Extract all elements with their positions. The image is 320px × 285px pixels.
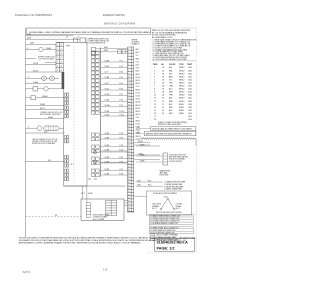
svg-text:16: 16 [128,95,130,97]
svg-text:15: 15 [154,110,156,112]
wire row 105 [26,105,65,107]
svg-text:18: 18 [162,67,164,69]
svg-text:20: 20 [128,108,130,110]
svg-text:P1-7: P1-7 [120,94,124,96]
component box outline [56,42,87,186]
svg-text:VT-5: VT-5 [136,61,140,63]
svg-text:11: 11 [128,80,130,82]
svg-text:ITEM: ITEM [153,64,158,66]
svg-text:SRML: SRML [179,107,184,109]
box1 left cells group 5 [65,169,69,181]
svg-text:41.1: 41.1 [71,164,74,166]
svg-text:6: 6 [154,82,155,84]
svg-text:13: 13 [154,104,156,106]
svg-text:18: 18 [162,73,164,75]
ladder right stub wires [134,143,160,160]
svg-text:53: 53 [128,210,130,212]
svg-text:P1-10: P1-10 [120,111,124,113]
note box 2 [144,131,196,135]
wire row 55 [26,58,37,60]
svg-text:DOUBLE WALL OVEN // WIRING DIA: DOUBLE WALL OVEN // WIRING DIAGRAM DE PA… [29,31,152,34]
svg-text:23: 23 [128,117,130,119]
svg-text:1: 1 [154,67,155,69]
svg-text:WIRING DIAGRAM: WIRING DIAGRAM [104,22,135,26]
door latch detail box [146,191,191,215]
svg-text:200C: 200C [188,67,193,69]
svg-text:14: 14 [162,101,164,103]
svg-text:18: 18 [162,76,164,78]
svg-text:14: 14 [154,107,156,109]
svg-text:Publication No 5995535324: Publication No 5995535324 [15,13,52,17]
terminal block N [80,38,86,42]
svg-text:BU-18: BU-18 [136,102,141,104]
svg-text:6: 6 [28,127,29,129]
svg-text:SEW-2: SEW-2 [179,76,185,78]
frame left border [25,28,27,238]
svg-text:SPST: SPST [66,46,70,48]
svg-text:41: 41 [128,173,130,175]
svg-text:51: 51 [128,204,130,206]
interconnect wires upper group [101,62,128,107]
svg-text:OR-7: OR-7 [136,68,140,70]
svg-text:18: 18 [162,70,164,72]
svg-text:MOTOR ASSY SWITCHES: MOTOR ASSY SWITCHES [40,113,61,116]
svg-text:15: 15 [128,92,130,94]
svg-text:3: 3 [154,73,155,75]
svg-text:37: 37 [128,160,130,162]
svg-text:18: 18 [162,95,164,97]
svg-text:BR-4: BR-4 [136,58,140,60]
svg-text:WH-9: WH-9 [136,74,140,76]
svg-text:41.1: 41.1 [48,160,51,162]
EOC relay grid [106,200,117,215]
svg-text:P1-8: P1-8 [120,137,124,139]
dashed wire 44 bottom [26,216,82,218]
svg-text:DOOR POSITION: DOOR POSITION [169,161,183,163]
wire color table header [153,63,193,66]
main board connector ladder [128,47,134,212]
svg-text:BR-14: BR-14 [136,89,141,91]
svg-text:(N.C.): (N.C.) [152,208,157,210]
table top rule [152,60,196,62]
svg-text:SEW-2: SEW-2 [179,79,185,81]
receptacle table 2 [149,226,193,234]
P2 cell pin numbers [57,44,61,72]
svg-text:COM: COM [164,197,168,199]
svg-text:10: 10 [162,113,164,115]
svg-text:SRML: SRML [179,104,184,106]
svg-text:GY-6: GY-6 [136,65,140,67]
svg-text:5: 5 [28,77,29,79]
svg-text:18: 18 [162,79,164,81]
svg-text:SEW-2: SEW-2 [179,92,185,94]
svg-text:Y-3: Y-3 [136,55,138,57]
note box stubs [136,129,151,134]
svg-text:RD-22: RD-22 [136,114,141,116]
svg-text:P1-6: P1-6 [120,88,124,90]
svg-text:17: 17 [128,98,130,100]
connector pin pairs column upper [92,51,100,114]
svg-text:12: 12 [154,101,156,103]
svg-text:200C: 200C [188,89,193,91]
door lock motor circle and oval [37,126,42,131]
svg-text:28: 28 [128,132,130,134]
svg-text:UNLOCKED: UNLOCKED [152,204,162,206]
svg-text:12: 12 [162,107,164,109]
connector pin pairs column lower [92,133,100,177]
svg-text:P1-2: P1-2 [120,66,124,68]
svg-text:OR-27: OR-27 [136,130,141,132]
svg-text:VT-25: VT-25 [136,123,140,125]
svg-text:58-WH: 58-WH [42,96,48,98]
svg-text:E30EW7CEPS4: E30EW7CEPS4 [103,13,125,17]
supply wire N [26,38,81,40]
svg-text:105C: 105C [188,116,193,118]
electronic oven control box [81,199,124,220]
svg-text:18: 18 [162,89,164,91]
svg-text:P6 OVEN SENSOR CONNECTOR: P6 OVEN SENSOR CONNECTOR [151,230,177,232]
svg-text:45: 45 [128,185,130,187]
svg-text:9: 9 [154,92,155,94]
svg-text:1.6: 1.6 [137,132,139,134]
svg-text:200C: 200C [188,101,193,103]
V switch diagram [160,198,175,210]
svg-text:P2 UPPER OVEN LIGHT CONNECTOR: P2 UPPER OVEN LIGHT CONNECTOR [151,218,180,220]
svg-text:P5-2: P5-2 [148,185,152,187]
svg-text:150C: 150C [188,107,193,109]
svg-text:BR-24: BR-24 [136,120,141,122]
svg-text:8: 8 [154,89,155,91]
svg-text:10: 10 [154,95,156,97]
wire row 133 [26,132,65,134]
svg-text:200C: 200C [188,82,193,84]
terminal block L1 [74,38,78,42]
wire row 44 [26,43,57,45]
box1 left cells group 2 [65,106,69,118]
light switch box and circle row [33,87,38,91]
svg-text:S/671: S/671 [23,270,31,274]
wire row 109 [26,109,65,111]
svg-text:1-8: 1-8 [103,268,108,272]
box1 inner dashed divider [73,46,75,182]
svg-text:14: 14 [162,98,164,100]
svg-text:54-BK: 54-BK [46,48,52,50]
svg-text:P1-8: P1-8 [120,173,124,175]
small component box row 97 [31,96,36,100]
svg-text:PAGE: 1/2: PAGE: 1/2 [157,247,175,251]
svg-text:2. LOWER OVEN LIGHTS 120V: 2. LOWER OVEN LIGHTS 120V [86,40,110,42]
svg-text:50: 50 [128,201,130,203]
frame right border dotted [196,28,198,253]
svg-text:105C: 105C [188,119,193,121]
svg-text:22: 22 [128,114,130,116]
svg-text:4: 4 [27,48,28,50]
EOC left pin ladder [86,203,90,218]
svg-text:1. UPPER OVEN LIGHTS 120V: 1. UPPER OVEN LIGHTS 120V [86,38,110,40]
wire row 118 [26,118,65,120]
svg-text:P1-8: P1-8 [120,145,124,147]
svg-text:P1-1: P1-1 [120,60,124,62]
svg-text:BU-8: BU-8 [136,71,140,73]
svg-text:GY-16: GY-16 [136,96,141,98]
svg-text:57-BU: 57-BU [33,82,39,84]
svg-text:Y-13: Y-13 [136,86,139,88]
svg-text:32: 32 [128,145,130,147]
svg-text:56-GY: 56-GY [33,70,39,72]
EOC to ladder wires [124,201,128,206]
svg-text:P1-9: P1-9 [120,105,124,107]
svg-text:42-BK: 42-BK [48,117,54,119]
door latch motor component [163,153,168,165]
svg-text:25: 25 [128,123,130,125]
svg-text:52: 52 [128,207,130,209]
svg-text:VT-15: VT-15 [136,92,140,94]
svg-text:31: 31 [128,142,130,144]
svg-text:200C: 200C [188,79,193,81]
svg-text:BK-21: BK-21 [136,111,141,113]
svg-text:48: 48 [128,194,130,196]
svg-text:14: 14 [128,89,130,91]
svg-text:43: 43 [128,179,130,181]
svg-text:18-WH: 18-WH [105,105,111,107]
svg-text:P1-3: P1-3 [120,72,124,74]
svg-text:49: 49 [128,197,130,199]
interconnect wires lower group [101,135,128,176]
svg-text:200C: 200C [188,70,193,72]
revision box [155,239,195,252]
svg-text:P1-8: P1-8 [120,149,124,151]
svg-text:4: 4 [154,76,155,78]
svg-text:17: 17 [154,116,156,118]
probe list [164,181,185,191]
frame top border [26,27,197,29]
svg-text:SEW-2: SEW-2 [179,82,185,84]
ladder pin label column [136,49,141,141]
svg-text:P1-8: P1-8 [120,157,124,159]
svg-text:39: 39 [128,166,130,168]
svg-text:29: 29 [128,135,130,137]
note box 1 [151,127,196,131]
svg-text:42: 42 [128,176,130,178]
svg-text:33: 33 [128,148,130,150]
svg-text:BK-1: BK-1 [136,49,140,51]
svg-text:PK-20: PK-20 [136,108,141,110]
svg-text:SEW-2: SEW-2 [179,70,185,72]
svg-text:SEW-2: SEW-2 [179,95,185,97]
wires to list [136,182,164,186]
svg-text:LOCK MOTOR ASSY: LOCK MOTOR ASSY [38,58,55,61]
svg-text:Y-23: Y-23 [136,117,139,119]
svg-text:AVERTISSEMENT: COUPER L ALIMEN: AVERTISSEMENT: COUPER L ALIMENTATION AVA… [19,242,141,245]
oven lamps crossed circles [42,76,47,81]
svg-text:SEW-2: SEW-2 [179,67,185,69]
ladder cell pin numbers [128,49,130,212]
box1 bottom edge extension [64,185,126,187]
wire color table rows [154,67,193,121]
svg-text:1.5: 1.5 [137,127,139,129]
svg-text:14-VT: 14-VT [105,83,109,85]
interconnect wire labels lower [105,133,124,176]
svg-text:WH-29: WH-29 [136,136,141,138]
svg-text:YEL: YEL [169,73,172,75]
legend separator [150,28,152,120]
dark connector bar [62,72,65,89]
svg-text:40: 40 [128,170,130,172]
svg-text:SWITCH SHOWN DOOR CLOSED: SWITCH SHOWN DOOR CLOSED [156,212,182,214]
wire row 57 [26,71,57,73]
svg-text:11: 11 [154,98,156,100]
svg-text:SEW-2: SEW-2 [179,86,185,88]
lamp circles mid right [93,150,97,154]
frame bottom right dotted [148,252,197,254]
svg-text:44: 44 [55,215,57,217]
svg-text:DRIVEN CONTINUOUSLY IN ONE: DRIVEN CONTINUOUSLY IN ONE [32,141,57,143]
svg-text:SRML: SRML [179,110,184,112]
svg-text:41.4: 41.4 [88,179,91,181]
connector bus line [100,48,102,178]
svg-text:34: 34 [128,151,130,153]
svg-text:(EOC) LOWER: (EOC) LOWER [93,219,105,221]
wire 146 [136,145,160,147]
svg-text:UPPER: UPPER [132,40,138,42]
EOC feed wires [82,186,87,203]
svg-text:27: 27 [128,129,130,131]
box1 left cells group 4 [65,156,69,168]
svg-text:PK-30: PK-30 [136,139,141,141]
L1 feed cell boxes [91,48,95,52]
interconnect wire labels upper [105,60,124,107]
svg-text:200C: 200C [188,98,193,100]
svg-text:TEMP: TEMP [187,64,193,66]
svg-text:RD-12: RD-12 [136,83,141,85]
svg-text:16-OR: 16-OR [105,94,111,96]
svg-text:200C: 200C [188,76,193,78]
box1 left cells group 3 [65,136,69,143]
svg-text:42.2: 42.2 [94,179,97,181]
svg-text:BK-11: BK-11 [136,80,140,82]
svg-text:2: 2 [154,70,155,72]
svg-text:59-BR: 59-BR [40,104,46,106]
wire to latch detail box [134,195,146,197]
legend numbered list [153,38,198,61]
svg-text:P1-4: P1-4 [120,77,124,79]
svg-text:3. PROBE RETURN WIRE: 3. PROBE RETURN WIRE [164,186,183,188]
svg-text:18: 18 [162,86,164,88]
banner title box [27,28,151,35]
svg-text:SEW-2: SEW-2 [179,101,185,103]
heater element symbol [140,137,196,146]
svg-text:COLOR: COLOR [169,64,176,66]
svg-text:200C: 200C [188,73,193,75]
extra wires band 112-116 [101,112,128,116]
receptacle table 1 [149,215,193,225]
svg-text:SEW-2: SEW-2 [179,98,185,100]
svg-text:SRML: SRML [179,113,184,115]
svg-text:47: 47 [128,191,130,193]
symbol rows above rev box [151,233,179,241]
svg-text:13: 13 [128,86,130,88]
svg-text:PK-10: PK-10 [136,77,141,79]
svg-text:18: 18 [162,92,164,94]
svg-text:7: 7 [154,86,155,88]
svg-text:200C: 200C [188,95,193,97]
upper feed wires to ladder [96,49,128,52]
svg-text:24: 24 [128,120,130,122]
svg-text:30: 30 [128,139,130,141]
door switch circle row [39,47,43,51]
svg-text:12: 12 [128,83,130,85]
ladder top feed cells [118,50,122,54]
svg-text:36: 36 [128,157,130,159]
svg-text:150C: 150C [188,113,193,115]
svg-text:P1-8: P1-8 [120,100,124,102]
svg-text:THE MOTORIZED DOOR LOCK IS: THE MOTORIZED DOOR LOCK IS [32,139,57,141]
svg-text:200C: 200C [188,92,193,94]
svg-text:RD-2: RD-2 [136,52,140,54]
svg-text:P1-8: P1-8 [120,161,124,163]
svg-text:SEW-2: SEW-2 [179,89,185,91]
svg-text:18: 18 [162,82,164,84]
svg-text:P1-8: P1-8 [120,133,124,135]
svg-text:44: 44 [128,182,130,184]
box1 left cells group 1 [65,93,69,105]
connector P2 ladder [56,43,63,73]
svg-text:200C: 200C [188,86,193,88]
svg-text:OR-17: OR-17 [136,99,141,101]
svg-text:P3 LOWER OVEN LIGHT CONNECTOR: P3 LOWER OVEN LIGHT CONNECTOR [151,221,181,223]
svg-text:L1: L1 [66,36,68,38]
svg-text:21: 21 [128,111,130,113]
svg-text:35: 35 [128,154,130,156]
svg-text:LOCKED: LOCKED [176,204,183,206]
svg-text:46: 46 [128,188,130,190]
svg-text:16: 16 [154,113,156,115]
supply wire L1 [26,35,74,37]
svg-text:P5-1: P5-1 [148,180,152,182]
svg-text:10: 10 [162,110,164,112]
wire row 56 [26,64,57,66]
svg-text:10: 10 [128,77,130,79]
svg-text:5: 5 [154,79,155,81]
svg-text:18: 18 [154,119,156,121]
svg-text:18: 18 [128,101,130,103]
svg-text:26: 26 [128,126,130,128]
svg-text:150C: 150C [188,104,193,106]
svg-text:150C: 150C [188,110,193,112]
wire row 161 [26,161,65,163]
wire row 83 [26,82,62,84]
svg-text:CONTROL: CONTROL [132,42,140,44]
svg-text:WH-19: WH-19 [136,105,141,107]
svg-text:PLUG VIEW: PLUG VIEW [160,175,169,177]
svg-text:P1-11: P1-11 [120,114,124,116]
svg-text:P1-8: P1-8 [120,169,124,171]
svg-text:19: 19 [128,104,130,106]
svg-text:SEW-2: SEW-2 [179,73,185,75]
svg-text:P1-5: P1-5 [120,83,124,85]
svg-text:55-OR: 55-OR [33,63,39,65]
svg-text:38: 38 [128,163,130,165]
svg-text:12: 12 [162,104,164,106]
svg-text:(N.O.): (N.O.) [176,208,181,210]
